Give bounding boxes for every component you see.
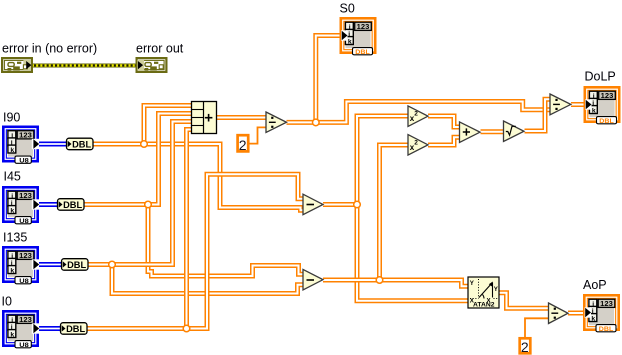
svg-text:k: k <box>592 107 596 114</box>
terminal: S0 indicator <box>340 17 377 56</box>
wire: S1 branch down to ATAN2 x input <box>357 205 468 301</box>
wire: I0 branch up to compound add input 4 <box>187 130 192 329</box>
svg-text:123: 123 <box>19 191 32 200</box>
svg-text:2: 2 <box>239 137 247 153</box>
function: To Double conversion (I90) <box>67 138 94 150</box>
svg-text:ATAN2: ATAN2 <box>473 303 495 309</box>
svg-text:AoP: AoP <box>583 278 607 292</box>
wire: I90 to subtract1 bottom input <box>93 144 303 210</box>
svg-text:123: 123 <box>19 315 32 324</box>
function: To Double conversion (I0) <box>61 323 88 335</box>
svg-text:I0: I0 <box>2 295 12 309</box>
wire: constant 2 to divide3 bottom input (scalar) <box>525 318 548 338</box>
function: divide3 (AoP) <box>549 303 569 324</box>
function: square2 (S2 squared) <box>408 135 428 156</box>
function: add triangle <box>460 122 481 142</box>
wire: subtract2 output S2 to ATAN2 y input <box>323 280 468 286</box>
terminal: I45 control <box>2 186 39 225</box>
terminal: AoP indicator <box>583 294 620 333</box>
svg-text:123: 123 <box>601 91 614 100</box>
svg-text:k: k <box>10 207 14 214</box>
constant: 2 (divisor for AoP) <box>520 338 531 355</box>
svg-text:DBL: DBL <box>599 118 614 125</box>
node: junction on S1 wire <box>354 201 361 208</box>
svg-text:U8: U8 <box>19 157 29 164</box>
wire: S2 branch up to square2 input <box>380 145 409 280</box>
node: junction on I45 wire <box>145 201 152 208</box>
function: subtract2 (S2) <box>303 269 323 290</box>
wire: I0 to subtract1 top input <box>86 174 303 328</box>
wire: square root output to divide2 top input <box>525 99 551 131</box>
svg-text:DBL: DBL <box>355 49 370 56</box>
wire: I45 branch down to subtract2 top input <box>148 206 303 276</box>
svg-text:123: 123 <box>19 130 32 139</box>
svg-text:123: 123 <box>357 22 370 31</box>
node: junction on S2 wire <box>376 277 383 284</box>
constant: 2 (divisor for S0) <box>238 135 249 153</box>
terminal: I90 control <box>2 126 39 165</box>
wire: S0 branch up to S0 indicator <box>316 36 342 123</box>
node: junction on I135 wire <box>109 261 116 268</box>
svg-text:error in (no error): error in (no error) <box>2 42 97 56</box>
svg-text:123: 123 <box>600 299 613 308</box>
function: compound arithmetic add, 4 inputs <box>192 102 217 134</box>
wire: compound add output to divide1 <box>217 115 267 120</box>
wire: error in to error out (dashed error cluster wire) <box>33 64 136 68</box>
wire: square2 output to add triangle bottom input <box>428 137 460 145</box>
function: subtract1 (S1) <box>303 194 323 215</box>
svg-text:error out: error out <box>136 42 184 56</box>
function: To Double conversion (I135) <box>62 259 89 271</box>
svg-text:k: k <box>348 38 352 45</box>
wire: constant 2 to divide1 bottom input (scalar) <box>249 127 266 143</box>
terminal: I135 control <box>2 246 39 285</box>
svg-text:I90: I90 <box>3 111 20 125</box>
function: square1 (S1 squared) <box>408 106 428 127</box>
terminal: DoLP indicator <box>584 86 621 125</box>
svg-text:k: k <box>591 315 595 322</box>
function: square root <box>504 121 525 142</box>
svg-text:DBL: DBL <box>63 200 83 210</box>
wire: I135 branch down to subtract2 bottom input <box>112 266 303 294</box>
wire: I135 control to DBL (blue u8 2D array) <box>37 262 62 267</box>
svg-text:DBL: DBL <box>72 140 92 150</box>
function: ATAN2 <box>468 277 499 309</box>
wire: divide3 output to AoP indicator <box>568 311 585 316</box>
terminal: I0 control <box>2 310 39 349</box>
wire: I0 control to DBL (blue u8 2D array) <box>37 326 61 331</box>
svg-text:123: 123 <box>19 251 32 260</box>
function: To Double conversion (I45) <box>58 199 85 211</box>
svg-text:2: 2 <box>414 140 418 147</box>
svg-text:U8: U8 <box>19 218 29 225</box>
wire: I90 control to DBL (blue u8 2D array) <box>37 142 67 147</box>
wire: S1 branch up to square1 input <box>357 116 408 205</box>
svg-text:k: k <box>10 147 14 154</box>
terminal: error out indicator <box>136 57 168 73</box>
function: divide2 (DoLP) <box>550 94 571 115</box>
svg-text:U8: U8 <box>19 342 29 349</box>
wire: I90 branch up to compound add input 1 <box>144 106 192 147</box>
svg-text:S0: S0 <box>340 2 355 16</box>
svg-text:DBL: DBL <box>66 324 86 334</box>
svg-text:DBL: DBL <box>67 260 87 270</box>
function: divide1 (S0 = sum/2) <box>266 112 287 133</box>
terminal: error in control <box>1 57 33 73</box>
wire: ATAN2 output to divide3 top input <box>499 293 548 309</box>
wire: subtract1 output S1 to junction <box>323 202 357 207</box>
wire: square1 output to add triangle top input <box>428 116 460 127</box>
svg-text:2: 2 <box>521 339 529 355</box>
wire: I135 to compound add input 3 <box>87 122 192 265</box>
svg-text:I45: I45 <box>4 170 21 184</box>
wire: I45 control to DBL (blue u8 2D array) <box>37 202 58 207</box>
svg-text:U8: U8 <box>19 278 29 285</box>
wire: divide2 output to DoLP indicator <box>571 102 586 107</box>
wire: I45 to compound add input 2 <box>84 114 192 205</box>
wire: divide1 output S0 to divide2 bottom input <box>287 102 551 123</box>
svg-text:DoLP: DoLP <box>585 70 616 84</box>
svg-text:2: 2 <box>414 111 418 118</box>
svg-text:DBL: DBL <box>599 326 614 333</box>
wire: add triangle output to square root <box>481 129 504 134</box>
node: junction on S0 wire <box>313 119 320 126</box>
svg-text:k: k <box>10 331 14 338</box>
node: junction on I90 wire <box>141 141 148 148</box>
node: junction on I0 wire <box>183 325 190 332</box>
svg-text:I135: I135 <box>3 231 27 245</box>
svg-text:k: k <box>10 267 14 274</box>
